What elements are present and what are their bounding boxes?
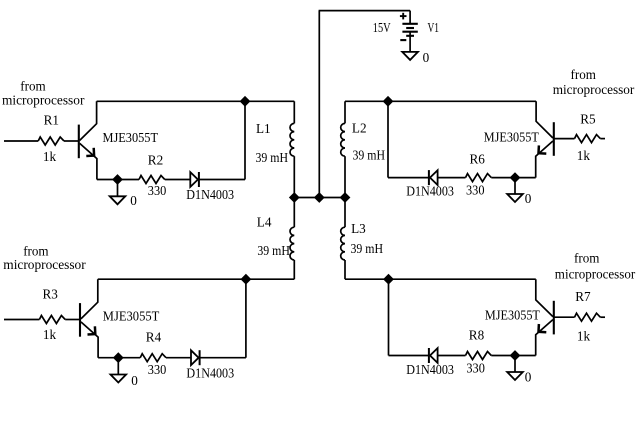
resistor R5 — [575, 135, 601, 143]
wire BR diode row — [389, 355, 429, 357]
label microprocessor TR — [553, 82, 635, 97]
junction BL top — [241, 275, 250, 284]
label 0 BL — [131, 373, 138, 388]
wire L2 branch — [344, 101, 346, 197]
label R5 — [580, 112, 596, 127]
wire Q2 base out — [554, 138, 575, 140]
svg-text:R5: R5 — [580, 112, 596, 127]
junction BL emitter — [114, 353, 123, 362]
wire TL right vertical — [244, 101, 246, 179]
diode D3 — [191, 350, 200, 365]
label L2 value — [353, 148, 386, 163]
svg-text:R7: R7 — [575, 289, 591, 304]
svg-text:L3: L3 — [351, 221, 366, 236]
wire Q3 collector top — [98, 278, 294, 280]
label R8 value — [466, 360, 485, 375]
wire R5 stub — [600, 138, 605, 140]
transistor Q1 — [79, 101, 97, 179]
label R2 — [148, 153, 163, 168]
label R5 value — [577, 148, 591, 163]
junction TL top — [240, 97, 249, 106]
svg-text:1k: 1k — [577, 148, 591, 163]
svg-text:microprocessor: microprocessor — [3, 257, 86, 272]
diode D2 — [429, 170, 438, 185]
wire R8 to emitter — [491, 355, 535, 357]
label microprocessor BL — [3, 257, 86, 272]
svg-text:D1N4003: D1N4003 — [186, 187, 234, 202]
wire Q4 base out — [554, 316, 575, 318]
ground TR — [507, 178, 523, 202]
label Q3 — [103, 308, 160, 323]
label microprocessor TL — [2, 93, 85, 108]
resistor R2 — [139, 176, 165, 184]
svg-text:D1N4003: D1N4003 — [186, 366, 234, 381]
resistor R6 — [466, 174, 492, 182]
wire supply top — [319, 11, 411, 198]
svg-text:V1: V1 — [428, 20, 440, 35]
label 15V — [373, 20, 391, 35]
svg-text:0: 0 — [130, 193, 137, 208]
svg-text:39 mH: 39 mH — [256, 150, 289, 165]
wire R6 to emitter — [491, 177, 535, 179]
node junction right — [340, 193, 349, 202]
wire Q3 input — [4, 319, 39, 321]
label D4 — [406, 362, 454, 377]
label Q1 — [103, 130, 159, 145]
resistor R8 — [466, 352, 492, 360]
svg-text:R8: R8 — [469, 328, 485, 343]
ground TL — [110, 180, 126, 205]
label L3 — [351, 221, 366, 236]
svg-text:from: from — [20, 78, 46, 93]
svg-text:330: 330 — [148, 362, 167, 377]
resistor R4 — [140, 354, 166, 362]
svg-text:from: from — [571, 67, 597, 82]
wire R7 stub — [600, 316, 605, 318]
svg-text:R2: R2 — [148, 153, 163, 168]
label R3 value — [43, 327, 57, 342]
label R4 — [146, 330, 162, 345]
wire L1 branch — [293, 101, 295, 197]
svg-text:R6: R6 — [470, 152, 486, 167]
svg-text:39 mH: 39 mH — [351, 241, 384, 256]
label R7 — [575, 289, 591, 304]
node junction centre — [315, 193, 324, 202]
label L4 — [257, 215, 272, 230]
svg-text:microprocessor: microprocessor — [553, 82, 635, 97]
label R1 — [44, 113, 59, 128]
label R7 value — [577, 329, 591, 344]
wire R1 to base — [64, 140, 79, 142]
label D1 — [186, 187, 234, 202]
battery V1 — [400, 11, 418, 52]
label from TL — [20, 78, 46, 93]
label R2 value — [148, 183, 167, 198]
wire D4 to R8 — [438, 355, 466, 357]
junction BR top — [384, 275, 393, 284]
wire BL right vertical — [245, 279, 247, 358]
inductor L4 — [290, 227, 294, 260]
svg-text:MJE3055T: MJE3055T — [484, 129, 539, 144]
wire R4 to diode — [166, 357, 191, 359]
label L1 value — [256, 150, 289, 165]
label R8 — [469, 328, 485, 343]
svg-text:microprocessor: microprocessor — [555, 266, 636, 281]
svg-text:R3: R3 — [43, 287, 59, 302]
wire TR left vertical — [387, 101, 389, 177]
ground BR — [507, 356, 523, 381]
junction BR emitter — [510, 351, 519, 360]
label D3 — [186, 366, 234, 381]
wire Q1 input — [4, 140, 38, 142]
svg-text:1k: 1k — [43, 149, 57, 164]
inductor L1 — [290, 123, 294, 156]
junction TR emitter — [510, 173, 519, 182]
label R1 value — [43, 149, 57, 164]
wire TR diode row — [388, 177, 429, 179]
label Q4 — [485, 308, 540, 323]
diode D4 — [429, 348, 438, 363]
svg-text:39 mH: 39 mH — [353, 148, 386, 163]
node junction left — [290, 193, 299, 202]
label R3 — [43, 287, 59, 302]
svg-text:15V: 15V — [373, 20, 391, 35]
svg-text:MJE3055T: MJE3055T — [485, 308, 540, 323]
label R6 value — [466, 182, 485, 197]
svg-text:1k: 1k — [43, 327, 57, 342]
wire L3 branch — [344, 198, 346, 280]
resistor R1 — [38, 137, 64, 145]
wire Q4 collector top — [345, 278, 536, 280]
label L2 — [352, 121, 367, 136]
svg-text:D1N4003: D1N4003 — [406, 183, 454, 198]
ground BL — [111, 358, 127, 383]
junction TR top — [383, 97, 392, 106]
svg-text:1k: 1k — [577, 329, 591, 344]
inductor L2 — [341, 123, 345, 156]
label from BL — [23, 244, 49, 259]
wire Q1 emitter bottom — [97, 179, 139, 181]
wire BR left vertical — [388, 279, 390, 355]
label 0 BR — [525, 369, 532, 384]
label 0 TL — [130, 193, 137, 208]
ground battery — [402, 52, 418, 60]
label 0 TR — [525, 191, 532, 206]
label L3 value — [351, 241, 384, 256]
svg-text:MJE3055T: MJE3055T — [103, 308, 160, 323]
wire Q1 collector top — [97, 100, 295, 102]
label 0 battery — [423, 50, 430, 65]
wire R2 to diode — [165, 179, 191, 181]
svg-text:R4: R4 — [146, 330, 162, 345]
svg-text:D1N4003: D1N4003 — [406, 362, 454, 377]
label microprocessor BR — [555, 266, 636, 281]
label R4 value — [148, 362, 167, 377]
resistor R3 — [39, 316, 65, 324]
transistor Q4 — [536, 279, 554, 355]
resistor R7 — [575, 313, 601, 321]
label D2 — [406, 183, 454, 198]
svg-text:0: 0 — [525, 191, 532, 206]
svg-text:39 mH: 39 mH — [257, 243, 290, 258]
svg-text:MJE3055T: MJE3055T — [103, 130, 159, 145]
wire D3 to corner — [200, 357, 246, 359]
svg-text:L4: L4 — [257, 215, 272, 230]
wire L4 branch — [293, 198, 295, 280]
wire Q2 collector top — [345, 100, 536, 102]
transistor Q2 — [536, 101, 554, 177]
svg-text:330: 330 — [466, 360, 485, 375]
wire centre node — [294, 197, 345, 199]
label from BR — [574, 251, 600, 266]
svg-text:0: 0 — [525, 369, 532, 384]
svg-text:0: 0 — [423, 50, 430, 65]
label L4 value — [257, 243, 290, 258]
wire D2 to R6 — [438, 177, 466, 179]
svg-text:from: from — [574, 251, 600, 266]
svg-text:L2: L2 — [352, 121, 367, 136]
label R6 — [470, 152, 486, 167]
wire R3 to base — [65, 319, 80, 321]
label L1 — [256, 121, 271, 136]
inductor L3 — [341, 227, 345, 260]
transistor Q3 — [80, 279, 98, 358]
svg-text:microprocessor: microprocessor — [2, 93, 85, 108]
svg-text:0: 0 — [131, 373, 138, 388]
junction TL emitter — [113, 175, 122, 184]
label V1 — [428, 20, 440, 35]
wire Q3 emitter bottom — [98, 357, 140, 359]
svg-text:330: 330 — [148, 183, 167, 198]
label Q2 — [484, 129, 539, 144]
diode D1 — [190, 172, 199, 187]
svg-text:R1: R1 — [44, 113, 59, 128]
wire D1 to corner — [199, 179, 245, 181]
svg-text:330: 330 — [466, 182, 485, 197]
label from TR — [571, 67, 597, 82]
svg-text:L1: L1 — [256, 121, 271, 136]
